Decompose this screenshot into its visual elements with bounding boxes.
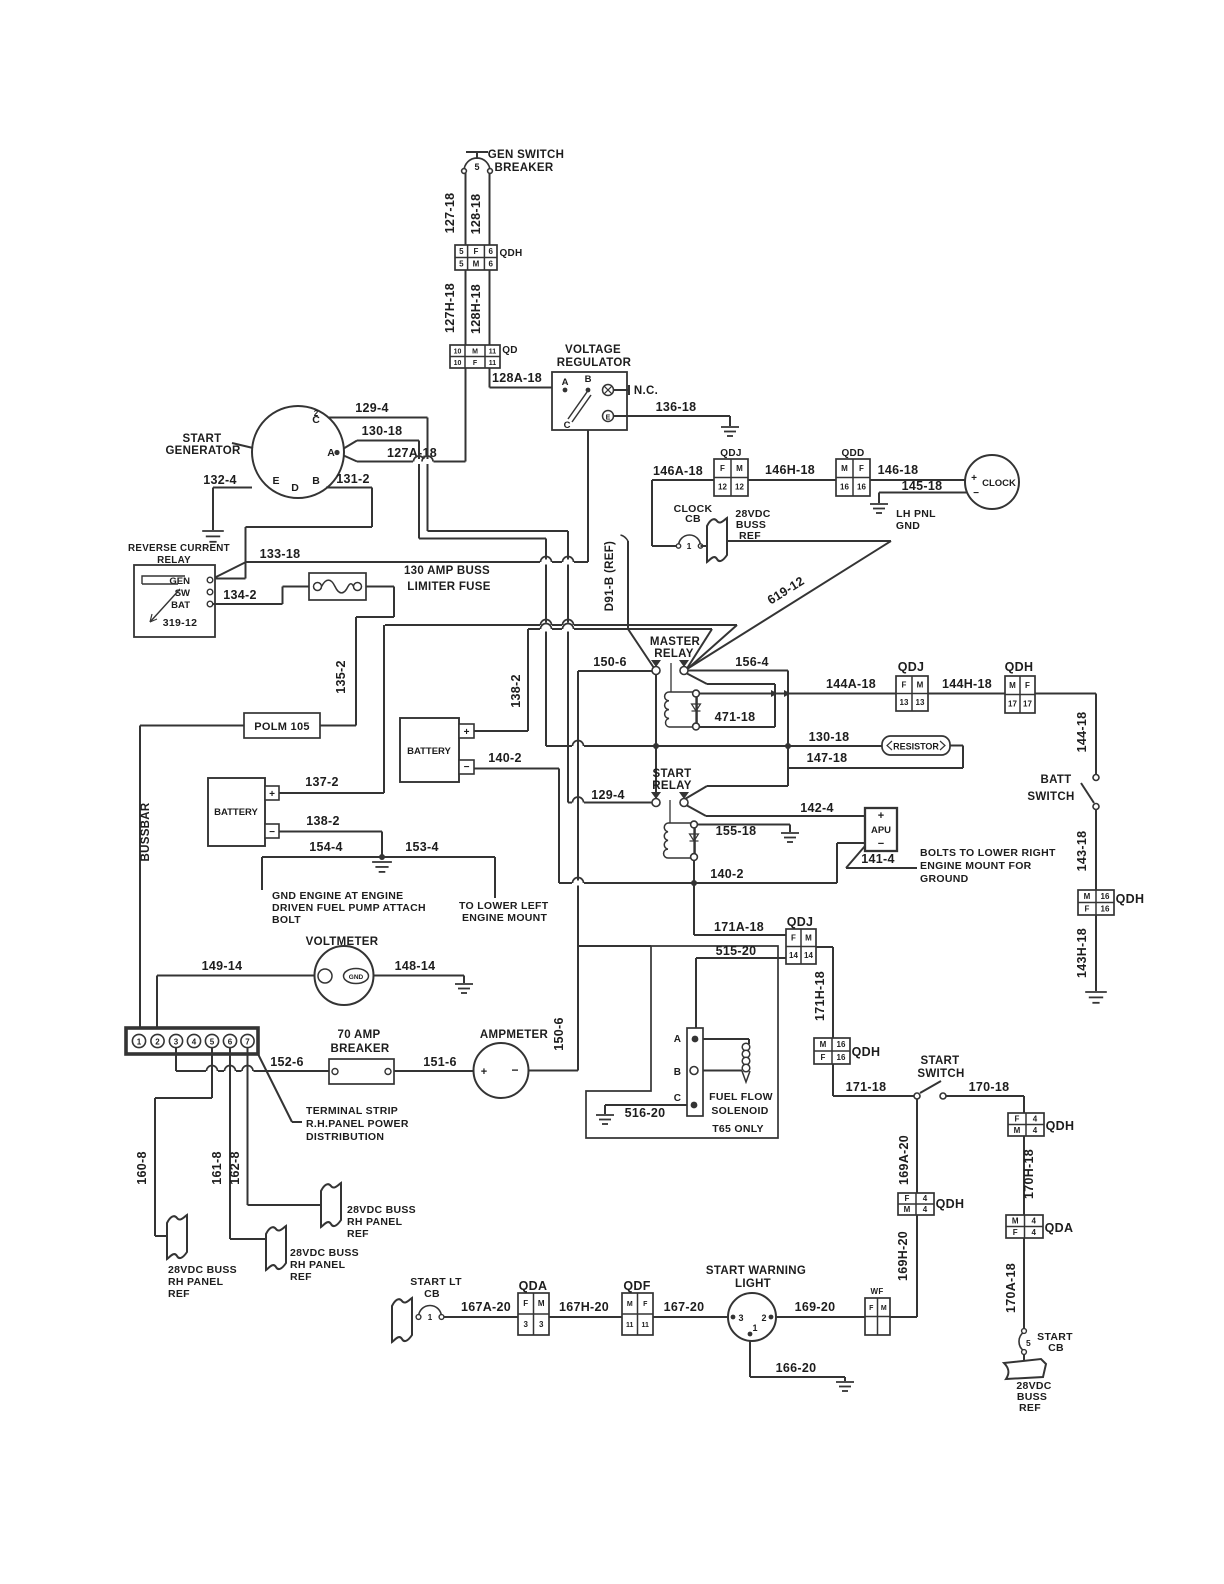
svg-text:16: 16: [840, 482, 849, 491]
svg-text:F: F: [791, 933, 796, 942]
svg-text:134-2: 134-2: [223, 588, 256, 602]
svg-text:B: B: [674, 1067, 681, 1078]
svg-text:GEN SWITCH: GEN SWITCH: [488, 149, 564, 161]
wire 150-6 master relay to ampmeter: [578, 670, 652, 672]
wire from bus node to master relay left contact: [628, 629, 654, 668]
flag 28VDC BUSS RH PANEL REF (middle): [266, 1226, 286, 1270]
svg-text:BOLTS TO LOWER RIGHT: BOLTS TO LOWER RIGHT: [920, 847, 1056, 859]
svg-text:3: 3: [524, 1320, 529, 1329]
svg-text:A: A: [674, 1034, 681, 1045]
svg-text:GEN: GEN: [169, 576, 190, 587]
svg-text:4: 4: [192, 1037, 197, 1046]
ground at 155-18: [781, 833, 799, 842]
wire 131-2 generator B down to reverse current relay: [326, 487, 372, 489]
wire 145-18 clock to LH PNL GND: [879, 492, 967, 494]
svg-text:144-18: 144-18: [1075, 712, 1089, 753]
svg-text:LIGHT: LIGHT: [735, 1278, 771, 1290]
svg-text:CB: CB: [1048, 1342, 1064, 1354]
battery BT1 (left): [208, 778, 265, 846]
svg-text:138-2: 138-2: [509, 674, 523, 707]
svg-text:RH PANEL: RH PANEL: [168, 1276, 224, 1288]
svg-text:ENGINE MOUNT FOR: ENGINE MOUNT FOR: [920, 860, 1032, 872]
svg-text:130-18: 130-18: [809, 730, 850, 744]
switch START SWITCH: [914, 1093, 920, 1099]
svg-text:−: −: [511, 1063, 518, 1077]
wire 144-18 to batt switch: [1035, 693, 1096, 695]
svg-text:28VDC BUSS: 28VDC BUSS: [168, 1264, 237, 1276]
master relay mechanical link: [670, 663, 672, 692]
svg-text:10: 10: [454, 360, 462, 367]
svg-text:17: 17: [1008, 699, 1017, 708]
circuit breaker 70 AMP: [329, 1059, 394, 1084]
svg-text:16: 16: [1101, 904, 1110, 913]
svg-text:11: 11: [489, 360, 497, 367]
svg-text:QDJ: QDJ: [720, 448, 741, 459]
flag 28VDC BUSS RH PANEL REF (left): [167, 1215, 187, 1259]
svg-text:QDJ: QDJ: [787, 915, 814, 929]
svg-text:131-2: 131-2: [336, 472, 369, 486]
circuit breaker START LT CB: [419, 1306, 442, 1318]
svg-text:DISTRIBUTION: DISTRIBUTION: [306, 1131, 384, 1143]
svg-text:M: M: [1012, 1216, 1019, 1225]
svg-text:R.H.PANEL POWER: R.H.PANEL POWER: [306, 1118, 409, 1130]
ground at generator 132-4: [202, 531, 224, 542]
regulator lamp symbol (circle-X): [603, 385, 614, 396]
ground LH PNL GND: [870, 504, 888, 513]
svg-text:132-4: 132-4: [203, 473, 236, 487]
connector QDH (pins 16, start line): [814, 1038, 850, 1064]
svg-text:143-18: 143-18: [1075, 831, 1089, 872]
svg-text:RH PANEL: RH PANEL: [347, 1216, 403, 1228]
svg-text:REF: REF: [290, 1271, 312, 1283]
svg-text:319-12: 319-12: [163, 617, 198, 629]
svg-text:B: B: [585, 374, 592, 385]
wire 146H-18: [748, 479, 836, 481]
svg-text:170H-18: 170H-18: [1022, 1149, 1036, 1199]
fuel flow solenoid terminal block: [687, 1028, 703, 1116]
wire master relay left contact down to start relay: [655, 675, 657, 799]
svg-text:START WARNING: START WARNING: [706, 1265, 806, 1277]
svg-text:146H-18: 146H-18: [765, 463, 815, 477]
wire to N.C.: [614, 389, 630, 391]
svg-text:+: +: [971, 473, 977, 484]
wire bussbar POLM to terminal strip: [140, 725, 244, 727]
svg-text:136-18: 136-18: [656, 400, 697, 414]
svg-text:QDA: QDA: [519, 1279, 548, 1293]
svg-text:137-2: 137-2: [305, 775, 338, 789]
svg-text:16: 16: [1101, 892, 1110, 901]
wire solenoid B to coil: [703, 1070, 742, 1072]
wire 169A-20 start switch down: [916, 1099, 918, 1193]
svg-text:+: +: [269, 789, 275, 800]
svg-text:F: F: [869, 1305, 874, 1312]
svg-text:12: 12: [718, 482, 727, 491]
svg-text:RELAY: RELAY: [652, 780, 691, 792]
svg-text:2: 2: [155, 1037, 160, 1046]
connector QDA (170 line): [1006, 1215, 1043, 1238]
svg-text:VOLTAGE: VOLTAGE: [565, 344, 621, 356]
svg-text:M: M: [904, 1205, 911, 1214]
svg-text:QDD: QDD: [841, 448, 864, 459]
wire hop 127A-18 over 130-18 and 129-4 verticals: [413, 459, 425, 464]
svg-text:4: 4: [1033, 1126, 1038, 1135]
svg-text:QDA: QDA: [1045, 1221, 1074, 1235]
svg-text:F: F: [1013, 1228, 1018, 1237]
svg-text:LH PNL: LH PNL: [896, 508, 936, 520]
svg-text:146A-18: 146A-18: [653, 464, 703, 478]
svg-text:−: −: [973, 488, 979, 499]
svg-text:1: 1: [687, 541, 692, 551]
wire 146A-18 clock CB to QDJ: [652, 479, 714, 481]
svg-text:BOLT: BOLT: [272, 914, 301, 926]
flag 28VDC BUSS REF (start lt cb): [392, 1298, 412, 1342]
ground at 516-20: [596, 1115, 614, 1124]
svg-text:135-2: 135-2: [334, 660, 348, 693]
wire 137-2 left battery positive up to bus: [383, 625, 385, 793]
svg-text:BAT: BAT: [171, 600, 190, 611]
svg-text:TERMINAL STRIP: TERMINAL STRIP: [306, 1105, 398, 1117]
connector QDJ (pins 12): [714, 459, 748, 496]
wire 136-18 regulator to ground: [614, 415, 731, 417]
module POLM 105: [244, 713, 320, 738]
svg-text:A: A: [327, 447, 335, 459]
wire 128H-18: [489, 270, 491, 345]
svg-text:151-6: 151-6: [423, 1055, 456, 1069]
svg-text:DRIVEN FUEL PUMP ATTACH: DRIVEN FUEL PUMP ATTACH: [272, 902, 426, 914]
svg-text:170A-18: 170A-18: [1004, 1263, 1018, 1313]
svg-text:7: 7: [245, 1037, 250, 1046]
resistor R1: [882, 736, 950, 755]
svg-text:13: 13: [900, 698, 909, 707]
svg-text:WF: WF: [870, 1287, 883, 1296]
bus arrow into master relay right contact: [688, 625, 737, 669]
wire 127-18: [465, 173, 467, 245]
svg-text:SOLENOID: SOLENOID: [711, 1105, 768, 1117]
svg-text:GND: GND: [896, 520, 920, 532]
svg-text:BATTERY: BATTERY: [214, 807, 258, 818]
svg-text:E: E: [606, 415, 611, 422]
svg-text:M: M: [881, 1305, 887, 1312]
wire 171-18 to start switch: [832, 1064, 834, 1096]
svg-text:GENERATOR: GENERATOR: [165, 445, 241, 457]
svg-text:156-4: 156-4: [735, 655, 768, 669]
svg-text:127-18: 127-18: [443, 193, 457, 234]
switch BATT SWITCH: [1093, 775, 1099, 781]
wire 471-18 loop right contact to coil: [687, 674, 707, 685]
svg-text:F: F: [720, 464, 725, 473]
svg-text:TO LOWER LEFT: TO LOWER LEFT: [459, 900, 549, 912]
clock: [965, 455, 1019, 509]
svg-text:SWITCH: SWITCH: [1027, 791, 1074, 803]
svg-text:516-20: 516-20: [625, 1106, 666, 1120]
wire 143-18 batt switch to QDH: [1095, 810, 1097, 891]
svg-text:2: 2: [314, 409, 319, 418]
svg-text:28VDC BUSS: 28VDC BUSS: [347, 1204, 416, 1216]
ground for 136-18: [721, 427, 739, 436]
svg-text:M: M: [538, 1299, 545, 1308]
wire 162-8 terminal 7 to 28VDC buss flag: [247, 1048, 249, 1206]
svg-text:147-18: 147-18: [807, 751, 848, 765]
start relay contacts: [652, 799, 660, 807]
svg-text:152-6: 152-6: [270, 1055, 303, 1069]
svg-text:128H-18: 128H-18: [469, 284, 483, 334]
svg-text:MASTER: MASTER: [650, 636, 701, 648]
wire 143H-18 to ground: [1095, 915, 1097, 991]
svg-text:CLOCK: CLOCK: [982, 478, 1016, 489]
connector QDH (pins 17): [1005, 676, 1035, 713]
svg-text:F: F: [859, 464, 864, 473]
start relay coil: [668, 823, 695, 858]
meter VOLTMETER: [315, 946, 374, 1005]
svg-text:T65 ONLY: T65 ONLY: [712, 1123, 764, 1135]
svg-text:M: M: [1084, 892, 1091, 901]
svg-text:C: C: [564, 420, 571, 431]
svg-text:QDJ: QDJ: [898, 660, 925, 674]
bus hops over 130-18 and 129-4 verticals: [540, 623, 552, 628]
connector QDH (143 line): [1078, 890, 1114, 915]
svg-text:4: 4: [1032, 1228, 1037, 1237]
svg-text:149-14: 149-14: [202, 959, 243, 973]
master relay coil: [669, 692, 697, 727]
svg-text:C: C: [674, 1093, 681, 1104]
wire bus lower branch to master relay: [528, 628, 712, 630]
svg-text:CB: CB: [685, 513, 701, 525]
svg-text:150-6: 150-6: [552, 1017, 566, 1050]
svg-text:START: START: [921, 1055, 960, 1067]
wire 148-14 voltmeter to ground: [374, 975, 465, 977]
connector QDH (pins 5/6): [455, 245, 497, 270]
svg-text:B: B: [312, 475, 320, 487]
svg-text:QD: QD: [502, 345, 518, 356]
svg-text:142-4: 142-4: [800, 801, 833, 815]
svg-text:6: 6: [228, 1037, 233, 1046]
wire 170A-18: [1023, 1238, 1025, 1329]
leader to terminal strip label: [258, 1054, 292, 1122]
wire 134-2 BAT terminal to fuse: [213, 603, 283, 605]
wire 129-4 generator C to start relay: [325, 417, 428, 419]
svg-text:129-4: 129-4: [355, 401, 388, 415]
svg-text:REF: REF: [168, 1288, 190, 1300]
svg-text:F: F: [1085, 904, 1090, 913]
wire 138-2 left battery negative to ground point: [279, 831, 382, 833]
wire 155-18 coil to ground: [698, 824, 791, 826]
voltage regulator U1: [552, 372, 627, 430]
start generator circle: [252, 406, 344, 498]
svg-text:10: 10: [454, 348, 462, 355]
ground at 143H-18: [1085, 992, 1107, 1003]
svg-text:M: M: [473, 259, 480, 268]
wire 515-20 QDJ to solenoid terminal A: [696, 957, 786, 959]
svg-text:VOLTMETER: VOLTMETER: [306, 936, 379, 948]
wire 171H-18: [816, 946, 833, 948]
wire 167A-20: [443, 1316, 518, 1318]
svg-text:M: M: [472, 348, 478, 355]
svg-text:11: 11: [642, 1322, 650, 1329]
svg-text:140-2: 140-2: [488, 751, 521, 765]
svg-text:−: −: [269, 827, 275, 838]
wire 130-18 generator A to resistor: [337, 441, 357, 453]
svg-text:REF: REF: [1019, 1402, 1041, 1414]
wire 161-8 terminal 6 to 28VDC buss flag: [229, 1048, 231, 1240]
svg-text:14: 14: [789, 951, 798, 960]
svg-text:REF: REF: [347, 1228, 369, 1240]
wire 149-14 voltmeter to terminal strip: [157, 975, 315, 977]
wire 144A-18 coil top to QDJ: [700, 693, 897, 695]
wire 169-20 to start warning light: [776, 1316, 865, 1318]
circuit breaker START CB: [1019, 1332, 1024, 1351]
svg-text:153-4: 153-4: [405, 840, 438, 854]
svg-text:130 AMP BUSS: 130 AMP BUSS: [404, 565, 490, 577]
reverse current relay K1: [134, 565, 215, 637]
svg-text:167H-20: 167H-20: [559, 1300, 609, 1314]
svg-text:M: M: [820, 1040, 827, 1049]
svg-text:148-14: 148-14: [395, 959, 436, 973]
wire 132-4 generator E to ground: [213, 487, 252, 489]
wire 170-18 start switch to QDH: [946, 1095, 1024, 1097]
start relay mechanical link: [669, 800, 671, 823]
master relay suppression diode: [695, 697, 697, 723]
svg-text:ENGINE MOUNT: ENGINE MOUNT: [462, 912, 548, 924]
svg-text:141-4: 141-4: [861, 852, 894, 866]
svg-text:M: M: [1009, 681, 1016, 690]
svg-text:138-2: 138-2: [306, 814, 339, 828]
wire 169H-20: [916, 1215, 918, 1317]
wire START CB to 28VDC buss flag: [1023, 1354, 1025, 1360]
wire 160-8 terminal 5 to 28VDC buss flag: [211, 1048, 213, 1099]
svg-text:GROUND: GROUND: [920, 873, 969, 885]
svg-text:4: 4: [1032, 1216, 1037, 1225]
svg-text:169A-20: 169A-20: [897, 1135, 911, 1185]
svg-text:171A-18: 171A-18: [714, 920, 764, 934]
wire 619-12 from 28VDC buss to master relay: [726, 540, 891, 542]
svg-text:5: 5: [459, 247, 464, 256]
svg-text:F: F: [474, 247, 479, 256]
connector QDJ (pins 14): [786, 929, 816, 964]
svg-text:169H-20: 169H-20: [896, 1231, 910, 1281]
svg-text:−: −: [464, 762, 470, 773]
svg-text:1: 1: [428, 1313, 433, 1322]
28VDC BUSS REF flag at clock CB: [701, 545, 710, 547]
svg-text:6: 6: [488, 247, 493, 256]
svg-text:161-8: 161-8: [210, 1151, 224, 1184]
svg-text:167A-20: 167A-20: [461, 1300, 511, 1314]
wire solenoid A to coil: [703, 1038, 749, 1040]
svg-text:128A-18: 128A-18: [492, 371, 542, 385]
lamp START WARNING LIGHT: [728, 1293, 776, 1341]
wire 127A-18 from QD down and left to generator A: [465, 368, 467, 462]
wire 166-20 light to ground: [749, 1341, 751, 1377]
battery BT2 (right): [400, 718, 459, 782]
flag 28VDC BUSS RH PANEL REF (upper): [321, 1183, 341, 1227]
wire 133-18 reverse current relay GEN to regulator: [214, 562, 246, 578]
svg-text:169-20: 169-20: [795, 1300, 836, 1314]
svg-text:M: M: [736, 464, 743, 473]
svg-text:144H-18: 144H-18: [942, 677, 992, 691]
svg-text:143H-18: 143H-18: [1075, 928, 1089, 978]
svg-text:BREAKER: BREAKER: [331, 1043, 390, 1055]
wire 140-2 battery negative bus: [474, 768, 559, 770]
svg-text:155-18: 155-18: [716, 824, 757, 838]
svg-text:128-18: 128-18: [469, 194, 483, 235]
svg-text:QDH: QDH: [499, 248, 522, 259]
svg-text:F: F: [821, 1053, 826, 1062]
svg-text:3: 3: [174, 1037, 179, 1046]
wire 141-4 APU to engine mount ground: [846, 846, 865, 868]
wire hops 133-18 over 130-18 and 129-4 verticals: [540, 560, 552, 565]
svg-text:13: 13: [916, 698, 925, 707]
svg-text:RH PANEL: RH PANEL: [290, 1259, 346, 1271]
svg-text:133-18: 133-18: [260, 547, 301, 561]
start relay suppression diode: [693, 828, 695, 853]
wire 147-18 resistor loop back to start relay: [950, 745, 963, 747]
svg-text:144A-18: 144A-18: [826, 677, 876, 691]
svg-text:BUSSBAR: BUSSBAR: [140, 802, 152, 861]
svg-text:D: D: [291, 482, 299, 494]
svg-text:D91-B (REF): D91-B (REF): [604, 541, 616, 611]
svg-text:M: M: [1014, 1126, 1021, 1135]
svg-text:AMPMETER: AMPMETER: [480, 1029, 549, 1041]
svg-text:4: 4: [923, 1205, 928, 1214]
wire 128A-18 from QD to voltage regulator A: [489, 368, 491, 388]
svg-text:+: +: [481, 1066, 487, 1078]
svg-text:QDH: QDH: [852, 1045, 881, 1059]
svg-text:BATTERY: BATTERY: [407, 746, 451, 757]
svg-text:CB: CB: [424, 1288, 440, 1300]
svg-text:160-8: 160-8: [135, 1151, 149, 1184]
wire 167H-20: [549, 1316, 622, 1318]
svg-text:5: 5: [210, 1037, 215, 1046]
meter AMPMETER: [474, 1043, 529, 1098]
svg-text:RELAY: RELAY: [654, 648, 693, 660]
svg-text:REF: REF: [739, 530, 761, 542]
connector QDF (pins 11): [622, 1293, 653, 1335]
master relay contact arrows: [651, 660, 661, 667]
circuit breaker GEN SWITCH BREAKER: [466, 151, 488, 153]
svg-text:70 AMP: 70 AMP: [338, 1029, 381, 1041]
svg-text:16: 16: [857, 482, 866, 491]
svg-text:BATT: BATT: [1040, 774, 1071, 786]
svg-text:GND: GND: [349, 974, 364, 981]
svg-text:M: M: [805, 933, 812, 942]
connector QDJ (pins 13): [896, 676, 928, 711]
wire 135-2 fuse to POLM 105: [366, 586, 394, 588]
wire 138-2 right battery positive up to bus: [527, 629, 529, 731]
svg-text:F: F: [643, 1301, 648, 1308]
svg-text:1: 1: [137, 1037, 142, 1046]
svg-text:BREAKER: BREAKER: [495, 162, 554, 174]
svg-text:RELAY: RELAY: [157, 555, 191, 566]
svg-text:QDH: QDH: [1116, 892, 1145, 906]
svg-text:2: 2: [761, 1313, 766, 1323]
connector QDA (pins 3): [518, 1293, 549, 1335]
wire 144H-18: [928, 693, 1005, 695]
svg-text:F: F: [902, 680, 907, 689]
connector QDD (pins 16): [836, 459, 870, 496]
wire 516-20 solenoid C to ground: [605, 1104, 687, 1106]
svg-text:F: F: [473, 360, 478, 367]
flag 28VDC BUSS REF (start cb): [1004, 1359, 1046, 1379]
wire from regulator B down (D91-B node): [587, 394, 589, 562]
svg-text:RESISTOR: RESISTOR: [893, 742, 939, 752]
circuit breaker CLOCK CB: [679, 535, 701, 546]
wire 151-6 breaker to ampmeter: [394, 1070, 474, 1072]
svg-text:START: START: [653, 768, 692, 780]
svg-text:4: 4: [1033, 1114, 1038, 1123]
wire 154-4 / 153-4 engine ground runs: [262, 856, 495, 858]
svg-text:150-6: 150-6: [593, 655, 626, 669]
T65 only option boundary box: [586, 946, 778, 1138]
svg-text:6: 6: [488, 259, 493, 268]
